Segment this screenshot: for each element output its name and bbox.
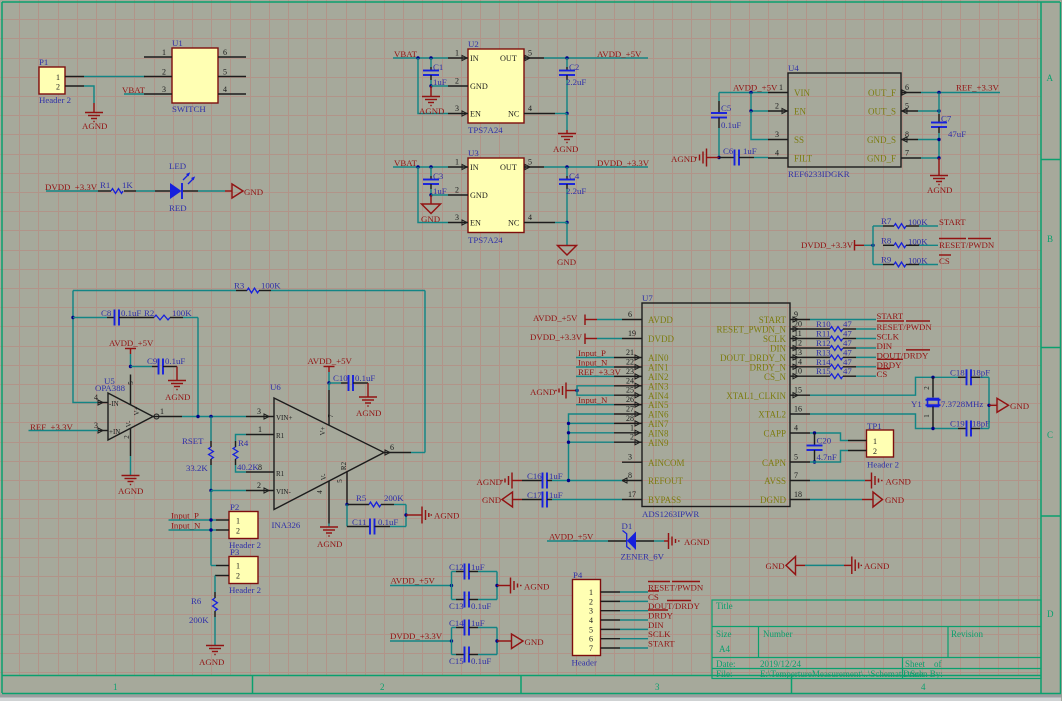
net label CS at R9 — [939, 255, 951, 266]
svg-text:5: 5 — [589, 625, 593, 634]
svg-text:2: 2 — [162, 68, 166, 77]
pin line U2.5 OUT — [524, 49, 544, 61]
power port GND at DGND — [862, 492, 904, 507]
svg-text:200K: 200K — [384, 493, 404, 503]
pin line U1.5 — [218, 68, 246, 77]
svg-text:Size: Size — [716, 629, 732, 639]
svg-text:D1: D1 — [622, 521, 633, 531]
connector P1 Header 2 — [39, 57, 71, 105]
wire AIN7 branch — [569, 422, 615, 424]
svg-text:Sheet of: Sheet of — [905, 659, 942, 669]
svg-text:47: 47 — [843, 366, 852, 376]
svg-text:AGND: AGND — [317, 539, 342, 549]
svg-text:3: 3 — [94, 421, 98, 430]
svg-text:2: 2 — [236, 527, 240, 536]
svg-text:0.1uF: 0.1uF — [471, 656, 491, 666]
connector P4 Header 7 — [572, 570, 601, 668]
pin line U7.17 BYPASS — [622, 490, 642, 500]
svg-text:U6: U6 — [270, 382, 281, 392]
wire R5/C11 right vertical — [405, 505, 407, 527]
net label DRDY at P4 — [648, 610, 674, 621]
svg-text:Input_P: Input_P — [578, 348, 606, 358]
junction C3 bottom — [429, 193, 432, 196]
wire GND_S to branch — [918, 139, 939, 141]
svg-text:R9: R9 — [881, 255, 892, 265]
svg-text:R4: R4 — [238, 438, 249, 448]
svg-text:OUT_F: OUT_F — [868, 88, 896, 98]
test point TP1 Header 2 — [867, 421, 900, 470]
net label DVDD_+3.3V at LED — [45, 182, 98, 192]
svg-text:DVDD_+3.3V: DVDD_+3.3V — [597, 158, 650, 168]
svg-text:START: START — [648, 639, 675, 649]
svg-text:R15: R15 — [816, 366, 831, 376]
svg-text:RESET/PWDN: RESET/PWDN — [939, 240, 995, 250]
junction C8 branch — [71, 316, 74, 319]
svg-text:Title: Title — [716, 601, 733, 611]
pin line U7.3 AINCOM — [622, 453, 642, 463]
wire U6 out to R3 vertical — [411, 452, 425, 454]
svg-text:47uF: 47uF — [948, 129, 966, 139]
svg-text:17: 17 — [628, 490, 636, 499]
wire AIN6-AIN9 vertical — [569, 414, 615, 481]
pin line U7.12 DIN — [790, 339, 810, 351]
net label RESET/PWDN at P4 — [648, 582, 704, 593]
svg-text:100K: 100K — [172, 308, 192, 318]
pin line P4.1 — [601, 591, 649, 593]
svg-text:1: 1 — [236, 517, 240, 526]
pin U5.2 V- vertical — [130, 428, 132, 456]
svg-text:C: C — [1047, 430, 1053, 440]
capacitor C1 1uF — [423, 58, 447, 87]
svg-text:100K: 100K — [908, 236, 928, 246]
pin line U7.26 AIN5 — [614, 395, 642, 407]
svg-text:2: 2 — [630, 433, 634, 442]
svg-text:5: 5 — [528, 49, 532, 58]
svg-text:VIN+: VIN+ — [276, 414, 292, 422]
capacitor C9 0.1uF — [131, 356, 186, 375]
wire AGND to AIN4 — [577, 391, 614, 396]
svg-text:19: 19 — [628, 329, 636, 338]
pin line U6.1 R1 — [246, 425, 274, 435]
LED D RED — [155, 161, 198, 213]
resistor R3 100K — [73, 281, 425, 293]
svg-text:100K: 100K — [908, 256, 928, 266]
svg-text:1uF: 1uF — [471, 562, 485, 572]
svg-text:2: 2 — [873, 447, 877, 456]
junction C2-NC — [565, 112, 568, 115]
pin line U6.2 VIN- — [246, 481, 274, 493]
svg-text:C9: C9 — [147, 356, 158, 366]
svg-text:GND: GND — [421, 214, 440, 224]
svg-text:EN: EN — [470, 219, 481, 228]
svg-text:CAPN: CAPN — [762, 458, 787, 468]
capacitor C14 1uF — [449, 618, 497, 636]
ground AGND below P1 — [82, 103, 107, 131]
power port GND at crystal — [989, 398, 1029, 412]
resistor R6 200K — [189, 576, 217, 646]
svg-text:AVDD_+5V: AVDD_+5V — [733, 83, 778, 93]
pin U6.4 V- vertical to AGND — [328, 481, 330, 527]
capacitor C10 0.1uF — [329, 373, 375, 391]
power port DVDD_+3.3V at U7 — [530, 332, 622, 344]
pin line U7.6 AVDD — [622, 310, 642, 320]
svg-text:2.2uF: 2.2uF — [566, 186, 586, 196]
pin line U7.25 AIN4 — [614, 386, 642, 398]
title block — [712, 600, 1041, 679]
svg-text:28: 28 — [626, 414, 634, 423]
net label Input_P at AIN0 — [576, 348, 614, 358]
pin U6.7 V+ vertical — [328, 383, 330, 425]
capacitor C6 1uF — [719, 146, 768, 166]
junction C14/C15 right — [495, 639, 498, 642]
resistor R9 100K — [873, 255, 938, 267]
svg-text:22: 22 — [626, 358, 634, 367]
resistor R8 100K — [881, 235, 938, 247]
ground AGND of tie — [844, 557, 889, 575]
svg-text:CS: CS — [939, 256, 950, 266]
net label VBAT at U1.3 — [122, 85, 146, 95]
svg-text:1: 1 — [258, 425, 262, 434]
svg-text:4: 4 — [528, 104, 532, 113]
pin line U4.7 GND_F — [901, 149, 921, 159]
net label DVDD_+3.3V at C14 — [390, 631, 452, 641]
wire C12/C13 right vertical — [496, 572, 498, 600]
svg-text:BYPASS: BYPASS — [648, 495, 681, 505]
resistor R5 200K — [347, 493, 406, 507]
svg-text:GND: GND — [885, 495, 904, 505]
junction crystal top — [931, 376, 934, 379]
power port GND tied to AGND — [766, 557, 806, 575]
ground AGND at AVSS — [865, 473, 911, 489]
svg-text:GND: GND — [557, 257, 576, 267]
svg-text:1: 1 — [873, 437, 877, 446]
pin line P2.1 — [216, 519, 229, 521]
wire pullup vertical — [872, 226, 874, 265]
svg-text:2019/12/24: 2019/12/24 — [760, 659, 802, 669]
svg-text:V+: V+ — [133, 406, 141, 415]
junction REFOUT branch — [567, 479, 570, 482]
svg-text:Header 2: Header 2 — [229, 585, 261, 595]
wire NC row down — [555, 113, 567, 115]
svg-text:7.3728MHz: 7.3728MHz — [941, 399, 983, 409]
resistor R2 100K — [130, 308, 198, 320]
power port DVDD_+3.3V pullups — [801, 240, 873, 251]
svg-text:0.1uF: 0.1uF — [378, 517, 398, 527]
pin line U4.2 EN — [768, 102, 788, 114]
wire R1 to LED — [136, 190, 155, 192]
wire R2 down to U5 output — [197, 318, 199, 417]
svg-text:18pF: 18pF — [972, 419, 990, 429]
wire AGND to AIN3 — [577, 386, 614, 391]
svg-text:C12: C12 — [449, 562, 464, 572]
crystal Y1 7.3728MHz — [911, 377, 983, 428]
svg-text:6: 6 — [589, 635, 593, 644]
svg-text:REF6233IDGKR: REF6233IDGKR — [788, 169, 850, 179]
junction C1 top — [429, 56, 432, 59]
svg-text:GND: GND — [470, 191, 488, 200]
svg-text:AVDD_+5V: AVDD_+5V — [597, 49, 642, 59]
junction R5/C11 left — [345, 503, 348, 506]
junction REF branch — [937, 91, 940, 94]
svg-text:VIN-: VIN- — [276, 488, 291, 496]
junction VBAT-EN branch — [416, 56, 419, 59]
pin line U1.3 — [144, 85, 172, 94]
capacitor C15 0.1uF — [449, 647, 497, 667]
junction VBAT-EN branch U3 — [416, 165, 419, 168]
svg-text:EN: EN — [470, 110, 481, 119]
junction C12/C13 right — [495, 584, 498, 587]
pin line U7.7 AVSS — [790, 471, 810, 481]
svg-text:1: 1 — [236, 562, 240, 571]
svg-text:D: D — [1047, 609, 1054, 619]
ground AGND below R6 — [199, 646, 224, 668]
svg-text:AGND: AGND — [356, 408, 381, 418]
svg-text:3: 3 — [589, 607, 593, 616]
svg-text:GND: GND — [1010, 401, 1029, 411]
wire GND to AGND tie — [805, 564, 844, 566]
svg-text:1: 1 — [589, 588, 593, 597]
pin line U1.6 — [218, 48, 246, 57]
pin U6.5 R2 vertical — [346, 472, 348, 505]
svg-text:AGND: AGND — [530, 387, 555, 397]
wire RSET bottom to U6 VIN- — [211, 490, 246, 492]
svg-text:EN: EN — [794, 107, 806, 117]
svg-text:Header 2: Header 2 — [39, 95, 71, 105]
svg-text:4: 4 — [94, 393, 98, 402]
pin line U2.3 EN — [448, 104, 468, 116]
svg-text:AVDD_+5V: AVDD_+5V — [109, 338, 154, 348]
voltage reference U4 REF6233IDGKR — [788, 63, 901, 179]
svg-text:R5: R5 — [356, 493, 367, 503]
svg-text:8: 8 — [628, 471, 632, 480]
svg-text:1: 1 — [630, 423, 634, 432]
svg-text:2: 2 — [923, 386, 931, 390]
svg-text:3: 3 — [628, 453, 632, 462]
capacitor C8 0.1uF — [73, 308, 141, 326]
pin U5.5 V+ vertical — [130, 375, 132, 405]
svg-text:1uF: 1uF — [549, 471, 563, 481]
net label AVDD_+5V at U4 — [719, 83, 778, 93]
svg-text:TP1: TP1 — [867, 421, 882, 431]
ground AGND below C1 — [419, 86, 444, 116]
wire C3 to U3 GND — [431, 194, 448, 196]
svg-text:1uF: 1uF — [471, 618, 485, 628]
wire D1 to AGND — [654, 540, 664, 542]
capacitor C5 0.1uF — [711, 93, 741, 158]
svg-text:NC: NC — [508, 219, 520, 228]
svg-text:C4: C4 — [569, 171, 580, 181]
resistor R13 47 — [810, 347, 876, 359]
junction pullup branch — [871, 244, 874, 247]
power port GND at C14/C15 — [497, 634, 544, 649]
svg-text:27: 27 — [626, 405, 634, 414]
pin line U4.6 OUT_F — [901, 83, 921, 95]
regulator U3 TPS7A24 — [468, 148, 524, 245]
svg-text:1uF: 1uF — [743, 146, 757, 156]
ground AGND below C7 — [927, 158, 952, 195]
svg-text:Date:: Date: — [716, 659, 736, 669]
resistor R12 47 — [810, 338, 876, 350]
junction R2 feedback — [196, 415, 199, 418]
net label Input_N at AIN1 — [576, 358, 614, 368]
pin line U7.5 CAPN — [790, 453, 810, 463]
svg-text:AVDD: AVDD — [648, 315, 673, 325]
resistor RSET 33.2K — [182, 417, 213, 491]
capacitor C7 47uF — [931, 93, 966, 159]
pin line P3.1 — [211, 565, 229, 567]
in-amp U6 INA326 — [270, 382, 384, 530]
svg-text:C16: C16 — [527, 471, 542, 481]
wire NC row down U3 — [555, 222, 567, 224]
svg-text:2: 2 — [56, 83, 60, 92]
ground AGND at C12/C13 — [497, 578, 549, 594]
switch U1 — [172, 38, 218, 114]
svg-text:Y1: Y1 — [911, 399, 922, 409]
svg-text:40.2K: 40.2K — [237, 462, 259, 472]
svg-text:V-: V- — [320, 473, 328, 480]
wire AIN9 branch — [569, 441, 615, 443]
svg-text:0.1uF: 0.1uF — [165, 356, 185, 366]
pin line U1.4 — [218, 85, 246, 94]
svg-text:47: 47 — [843, 319, 852, 329]
svg-text:AGND: AGND — [434, 511, 459, 521]
pin line U7.2 AIN9 — [614, 433, 642, 445]
resistor R14 47 — [810, 357, 876, 369]
pin line U4.1 VIN — [768, 83, 788, 93]
svg-text:6: 6 — [905, 83, 909, 92]
resistor R7 100K — [873, 216, 938, 228]
svg-text:START: START — [939, 217, 966, 227]
wire C14/C15 right vertical — [496, 628, 498, 655]
svg-text:File:: File: — [716, 669, 733, 679]
svg-text:U3: U3 — [468, 148, 479, 158]
junction C3 top — [429, 165, 432, 168]
net label REF_+3.3V at U5 +IN — [29, 422, 99, 432]
svg-text:V-: V- — [125, 420, 133, 427]
wire CAPN to TP1.2 — [810, 451, 848, 463]
pin line U3.3 EN — [448, 213, 468, 225]
svg-text:GND_S: GND_S — [867, 135, 896, 145]
svg-text:3: 3 — [455, 213, 459, 222]
svg-text:OPA388: OPA388 — [95, 383, 126, 393]
svg-text:U4: U4 — [788, 63, 799, 73]
pin line U7.16 XTAL2 — [790, 405, 810, 415]
svg-text:SS: SS — [794, 135, 804, 145]
svg-text:R1: R1 — [100, 180, 110, 190]
ground AGND left of C6 — [671, 149, 719, 167]
pin line U3.2 GND — [448, 186, 468, 196]
svg-text:C3: C3 — [433, 171, 444, 181]
capacitor C20 4.7nF — [807, 433, 837, 462]
ADC U7 ADS1263IPWR — [642, 293, 790, 519]
svg-text:U7: U7 — [642, 293, 653, 303]
svg-text:P4: P4 — [573, 570, 583, 580]
wire DGND to GND — [810, 499, 862, 501]
junction crystal bottom — [931, 427, 934, 430]
svg-text:RESET_PWDN_N: RESET_PWDN_N — [717, 325, 787, 335]
pin line P1.2 — [65, 85, 84, 87]
ground AGND at AIN3/AIN4 — [530, 383, 577, 399]
resistor R1 1K — [98, 180, 136, 193]
svg-text:Revision: Revision — [951, 629, 984, 639]
zener diode D1 ZENER_6V — [608, 521, 665, 562]
net label Input_P — [169, 511, 217, 521]
svg-text:6: 6 — [390, 443, 394, 452]
svg-text:R11: R11 — [816, 329, 830, 339]
power port GND right of LED — [225, 184, 263, 198]
net label DOUT/DRDY at U7 — [877, 350, 931, 361]
svg-text:C14: C14 — [449, 618, 464, 628]
junction Input_N — [209, 528, 212, 531]
svg-text:OUT_S: OUT_S — [868, 107, 896, 117]
svg-text:4: 4 — [775, 149, 779, 158]
svg-text:AGND: AGND — [553, 144, 578, 154]
capacitor C11 0.1uF — [347, 505, 406, 535]
svg-text:7: 7 — [327, 414, 335, 418]
svg-text:7: 7 — [794, 471, 798, 480]
svg-text:AGND: AGND — [864, 561, 889, 571]
net label AVDD_+5V at D1 — [547, 532, 608, 542]
junction C1 bottom — [429, 84, 432, 87]
pin line U2.4 NC — [524, 104, 555, 114]
svg-text:U1: U1 — [172, 38, 183, 48]
svg-text:LED: LED — [169, 161, 186, 171]
junction crystal GND — [987, 404, 990, 407]
pin line P4.6 — [601, 638, 649, 640]
pin line U7.19 DVDD — [622, 329, 642, 339]
svg-text:C20: C20 — [817, 436, 832, 446]
svg-text:1: 1 — [923, 414, 931, 418]
pin line U7.11 SCLK — [790, 329, 810, 341]
pin line P4.2 — [601, 600, 649, 602]
svg-text:0.1uF: 0.1uF — [121, 308, 141, 318]
regulator U2 TPS7A24 — [468, 39, 524, 135]
resistor R4 40.2K — [233, 435, 259, 473]
svg-text:GND: GND — [470, 82, 488, 91]
net label AVDD_+5V at C12 — [390, 576, 452, 586]
wire XTAL2 to crystal bottom rail — [810, 414, 958, 429]
wire CAPP to TP1.1 — [810, 433, 848, 441]
svg-text:C7: C7 — [941, 114, 952, 124]
svg-text:200K: 200K — [189, 615, 209, 625]
svg-text:4: 4 — [921, 682, 926, 692]
wire to U4 EN and SS — [751, 93, 768, 112]
svg-text:GND_F: GND_F — [867, 154, 896, 164]
svg-text:2: 2 — [380, 682, 385, 692]
svg-text:R1: R1 — [276, 470, 285, 478]
svg-text:DVDD_+3.3V: DVDD_+3.3V — [390, 631, 443, 641]
wire U5 out to U6 VIN+ — [182, 416, 246, 418]
capacitor C16 1uF — [522, 471, 622, 489]
svg-text:R3: R3 — [234, 281, 245, 291]
svg-text:DGND: DGND — [760, 495, 786, 505]
svg-text:7: 7 — [905, 149, 909, 158]
svg-text:1: 1 — [56, 73, 60, 82]
svg-text:0.1uF: 0.1uF — [355, 373, 375, 383]
junction C14/C15 left — [450, 639, 453, 642]
ground AGND below C10 — [356, 383, 381, 418]
junction C10 branch — [327, 381, 330, 384]
svg-text:4: 4 — [223, 85, 227, 94]
wire R3 to U6 output — [424, 291, 426, 453]
svg-text:START: START — [877, 311, 904, 321]
svg-text:4: 4 — [316, 490, 324, 494]
svg-text:DVDD_+3.3V: DVDD_+3.3V — [530, 332, 583, 342]
svg-text:GND: GND — [525, 637, 544, 647]
svg-text:1: 1 — [160, 407, 164, 416]
pin line P4.4 — [601, 619, 649, 621]
svg-text:C8: C8 — [101, 308, 112, 318]
